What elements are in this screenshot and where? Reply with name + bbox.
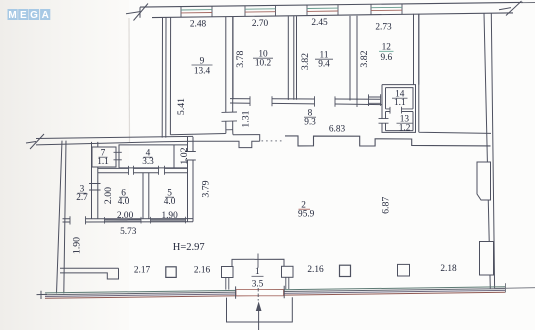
room 14 box [386, 88, 414, 131]
svg-text:1.90: 1.90 [72, 237, 83, 254]
door ticks room 13 left [379, 119, 389, 124]
dotted opening line corridor [262, 140, 285, 142]
corridor top wall (double, with door openings) [230, 99, 382, 105]
wire top wall thin extension right [521, 2, 535, 4]
vestibule square right [282, 266, 294, 277]
svg-text:A: A [42, 10, 49, 21]
porch outline [227, 297, 293, 322]
wall room11|room12 (double) [350, 16, 357, 101]
svg-text:2.73: 2.73 [375, 23, 392, 33]
room 7 box [92, 147, 116, 167]
svg-text:2.00: 2.00 [117, 211, 134, 221]
bottom wall left terminal [37, 291, 48, 299]
cluster mid wall (double, doors to 6 and 5) [98, 168, 188, 172]
svg-text:2.7: 2.7 [76, 193, 88, 203]
threshold sill room 5 [151, 217, 186, 224]
svg-text:1.1: 1.1 [394, 98, 406, 108]
wall 14|13 divider with door [386, 107, 414, 114]
svg-text:10.2: 10.2 [255, 59, 272, 69]
door jamb ticks entrance [236, 286, 285, 299]
wall room9|room10 (double with door opening) [226, 17, 233, 135]
svg-text:9.4: 9.4 [318, 60, 330, 70]
svg-text:6.83: 6.83 [329, 125, 346, 135]
door ticks room3|room6 [89, 184, 101, 191]
label underlines [78, 51, 413, 276]
bottom exterior wall band [45, 287, 505, 293]
room 3 right wall (double) [92, 142, 98, 219]
svg-text:95.9: 95.9 [298, 209, 315, 219]
svg-text:1.1: 1.1 [97, 157, 109, 167]
bottom wall right thin extension [494, 283, 535, 292]
entrance center line upper [257, 254, 259, 268]
wall room6|room5 (double) [143, 173, 149, 219]
block rooms 13/14 outer box [382, 85, 416, 133]
svg-text:H=2.97: H=2.97 [173, 242, 205, 253]
doorway corridor to room 12 lobby [368, 94, 381, 106]
svg-text:3.3: 3.3 [142, 157, 154, 167]
svg-text:1: 1 [255, 267, 260, 277]
column square E [398, 264, 410, 276]
window W4 [371, 4, 402, 15]
svg-text:5.41: 5.41 [176, 98, 187, 115]
block left wall inner line [385, 88, 387, 131]
break mark top-left [126, 4, 148, 21]
cluster bottom wall (double) [63, 219, 194, 222]
svg-text:4.0: 4.0 [118, 197, 130, 207]
wall room10|room11 (double) [288, 16, 294, 100]
window W1 [181, 6, 212, 17]
door ticks corridor doors [250, 96, 357, 107]
svg-text:9.3: 9.3 [304, 118, 316, 128]
window W3 [307, 5, 338, 16]
room 10 box [232, 17, 234, 100]
svg-text:2.48: 2.48 [190, 20, 207, 30]
column square A [166, 267, 176, 278]
vestibule square left [222, 267, 234, 278]
svg-text:5.73: 5.73 [120, 227, 137, 237]
svg-text:M: M [8, 10, 16, 21]
svg-text:1.2: 1.2 [399, 124, 411, 134]
room 13 bottom inner [386, 130, 414, 132]
left exterior wall (double) [57, 141, 67, 294]
door ticks room 9 right wall [222, 112, 238, 130]
vestibule legs [226, 277, 289, 289]
door ticks cluster right wall [185, 152, 196, 161]
break mark top-right [499, 1, 522, 16]
threshold sill room 6 [105, 217, 142, 224]
svg-text:9.6: 9.6 [380, 53, 392, 63]
shaft interior [419, 14, 491, 133]
mid-left wall band lower line + channel [36, 141, 260, 147]
wire top exterior wall outer line [140, 2, 523, 7]
svg-text:2.45: 2.45 [311, 18, 328, 28]
entrance center dash line [257, 288, 259, 301]
wire top exterior wall inner line [152, 13, 513, 18]
svg-text:2.00: 2.00 [103, 187, 114, 204]
window W2 [245, 5, 276, 16]
channel upper segment lobby [233, 135, 260, 142]
svg-text:1.31: 1.31 [241, 110, 252, 127]
room 9 outline [170, 17, 225, 135]
svg-text:3.82: 3.82 [359, 50, 370, 67]
svg-text:6.87: 6.87 [380, 197, 391, 214]
svg-text:2.70: 2.70 [252, 19, 269, 29]
faint page fold line [128, 18, 131, 142]
vestibule top [232, 259, 284, 266]
svg-text:2.16: 2.16 [194, 266, 211, 276]
svg-text:13.4: 13.4 [194, 67, 211, 77]
svg-text:G: G [30, 10, 38, 21]
wall room4|1.02 strip [173, 145, 175, 168]
svg-text:2.18: 2.18 [440, 264, 457, 274]
entrance threshold box [236, 290, 284, 296]
svg-text:1.90: 1.90 [161, 211, 178, 221]
column square D [340, 265, 351, 276]
svg-text:1.02: 1.02 [179, 147, 190, 164]
crenellated wall room 2 top [285, 136, 491, 146]
door ticks 7|4 [114, 152, 122, 160]
cluster right wall (double with door) [188, 137, 194, 222]
pilaster P1 right wall [477, 162, 491, 200]
right exterior wall (double) [484, 13, 495, 289]
svg-text:4.0: 4.0 [164, 197, 176, 207]
MEGA logo [8, 9, 51, 21]
door ticks cluster mid wall [129, 166, 165, 175]
svg-text:3.78: 3.78 [235, 51, 246, 68]
mid-left wall band upper line [36, 136, 193, 138]
svg-text:3.5: 3.5 [252, 280, 264, 290]
svg-text:2.16: 2.16 [307, 265, 324, 275]
break mark mid-left [26, 134, 44, 149]
door ticks room 3 bottom [70, 216, 86, 224]
room 11 left edge [296, 16, 298, 100]
stub wall with tab bottom-left [60, 268, 119, 279]
wall room12|shaft (double) [414, 14, 419, 85]
room 4 box [119, 145, 188, 168]
svg-text:E: E [20, 10, 27, 21]
pilaster P2 right wall [480, 242, 494, 276]
svg-text:2.17: 2.17 [134, 266, 151, 276]
page edge shading [129, 0, 535, 330]
entrance arrow [258, 309, 260, 330]
wire top wall left end cap [139, 7, 141, 18]
svg-text:3.82: 3.82 [300, 53, 311, 70]
svg-text:3.79: 3.79 [200, 180, 211, 197]
wall upper-left block left (double) [162, 17, 166, 137]
